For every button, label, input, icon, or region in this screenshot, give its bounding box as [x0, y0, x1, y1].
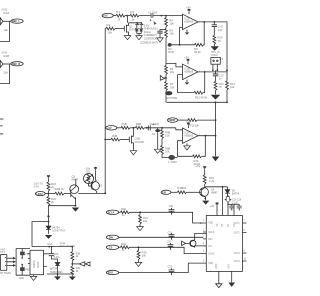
- svg-text:SCHOTTKY: SCHOTTKY: [52, 229, 66, 232]
- svg-text:ADJ: ADJ: [0, 248, 4, 251]
- svg-text:8: 8: [244, 230, 246, 232]
- svg-text:1n: 1n: [219, 77, 222, 81]
- svg-text:0.47u: 0.47u: [54, 256, 61, 259]
- svg-text:10k: 10k: [182, 186, 187, 190]
- svg-text:CONTROL: CONTROL: [144, 36, 158, 40]
- svg-text:PAD: PAD: [227, 264, 230, 269]
- svg-text:OUT3: OUT3: [234, 253, 241, 255]
- svg-text:R2B: R2B: [136, 122, 141, 126]
- svg-text:10k: 10k: [230, 85, 235, 89]
- svg-text:3: 3: [203, 236, 205, 238]
- svg-text:1k: 1k: [76, 270, 79, 273]
- svg-text:10k: 10k: [170, 70, 175, 74]
- svg-text:VB: VB: [222, 223, 224, 227]
- svg-text:C31: C31: [168, 233, 173, 235]
- svg-text:10k: 10k: [108, 31, 113, 35]
- svg-text:R40: R40: [121, 207, 126, 211]
- svg-text:(CD5952A SMT): (CD5952A SMT): [140, 42, 158, 45]
- svg-text:49.9k: 49.9k: [201, 95, 208, 99]
- svg-text:C30: C30: [169, 206, 174, 208]
- svg-text:AD8605: AD8605: [184, 21, 193, 24]
- svg-text:10k: 10k: [165, 150, 170, 154]
- svg-text:+5V: +5V: [107, 127, 112, 130]
- svg-text:OUT4: OUT4: [234, 261, 241, 263]
- svg-text:SCLK: SCLK: [208, 232, 215, 234]
- svg-text:4.7k: 4.7k: [59, 187, 65, 191]
- svg-text:SER5: SER5: [38, 261, 40, 268]
- svg-text:AD8605: AD8605: [184, 71, 193, 74]
- svg-text:1: 1: [203, 220, 205, 222]
- svg-text:2: 2: [203, 229, 205, 231]
- svg-text:10k: 10k: [195, 124, 200, 128]
- svg-text:+5V: +5V: [186, 120, 191, 124]
- svg-text:R42: R42: [121, 242, 126, 246]
- svg-text:1nF: 1nF: [218, 28, 223, 32]
- svg-text:SDO: SDO: [108, 272, 113, 275]
- svg-text:CS: CS: [208, 246, 212, 248]
- svg-text:6: 6: [180, 76, 182, 78]
- svg-text:TRIM: TRIM: [168, 51, 174, 54]
- svg-text:10k: 10k: [142, 254, 147, 258]
- svg-text:2N7002: 2N7002: [135, 140, 145, 144]
- svg-text:2k: 2k: [132, 17, 135, 21]
- svg-text:9: 9: [244, 251, 246, 253]
- svg-text:+5V: +5V: [186, 6, 191, 10]
- svg-text:FB1: FB1: [25, 254, 30, 256]
- svg-text:Q3: Q3: [99, 185, 103, 188]
- svg-text:10k: 10k: [169, 22, 174, 26]
- svg-text:VA: VA: [216, 223, 219, 226]
- svg-text:C1 10uF: C1 10uF: [148, 12, 158, 15]
- svg-text:Q4: Q4: [211, 188, 215, 192]
- svg-text:R1B: R1B: [122, 122, 127, 126]
- svg-text:DMC01: DMC01: [34, 259, 36, 268]
- svg-text:2N7002: 2N7002: [129, 28, 139, 32]
- svg-text:75: 75: [219, 85, 222, 89]
- svg-text:C33: C33: [168, 266, 173, 268]
- svg-text:REF_R: REF_R: [12, 63, 20, 66]
- svg-text:10uF: 10uF: [154, 123, 160, 126]
- svg-text:0.1uF: 0.1uF: [232, 202, 239, 204]
- svg-text:MMBT: MMBT: [211, 193, 218, 195]
- svg-text:+5V: +5V: [103, 15, 108, 18]
- svg-text:7: 7: [244, 221, 246, 223]
- svg-text:FULL-SCALE: FULL-SCALE: [60, 245, 75, 248]
- svg-text:R3B: R3B: [112, 134, 117, 138]
- svg-text:VDD: VDD: [208, 223, 213, 225]
- svg-text:L-TRIM: L-TRIM: [168, 161, 176, 164]
- svg-text:VC: VC: [228, 223, 230, 227]
- svg-text:10k: 10k: [169, 32, 174, 36]
- svg-text:GND: GND: [216, 263, 218, 268]
- svg-text:EN: EN: [162, 191, 166, 194]
- svg-text:6: 6: [203, 261, 205, 263]
- svg-text:10k: 10k: [3, 71, 8, 75]
- svg-text:MMBT: MMBT: [72, 180, 79, 182]
- svg-text:C4: C4: [152, 133, 156, 136]
- svg-text:AD8605: AD8605: [184, 135, 193, 138]
- svg-text:10k: 10k: [170, 85, 175, 89]
- svg-text:BAT54: BAT54: [50, 268, 58, 271]
- svg-text:2k: 2k: [118, 17, 121, 21]
- svg-text:49.9k: 49.9k: [194, 50, 201, 54]
- svg-text:C32: C32: [167, 242, 172, 244]
- svg-text:TEMP: TEMP: [168, 119, 175, 122]
- svg-text:SDO: SDO: [208, 263, 213, 265]
- svg-text:DIN: DIN: [208, 239, 212, 241]
- svg-text:IC4A: IC4A: [3, 11, 9, 15]
- svg-text:P1.5: P1.5: [0, 252, 5, 254]
- svg-text:TERM. RES: TERM. RES: [50, 272, 63, 274]
- svg-text:GND: GND: [19, 278, 24, 280]
- svg-text:5: 5: [203, 251, 205, 253]
- svg-text:10: 10: [244, 259, 247, 261]
- svg-text:OUT2: OUT2: [234, 233, 241, 235]
- svg-text:R21: R21: [86, 170, 91, 173]
- svg-text:FB2: FB2: [25, 270, 30, 272]
- svg-text:BT TRIAD: BT TRIAD: [0, 272, 11, 275]
- svg-text:10k: 10k: [3, 28, 8, 32]
- svg-text:R3: R3: [107, 23, 111, 27]
- svg-text:SCLK: SCLK: [108, 211, 115, 214]
- svg-text:10k: 10k: [165, 134, 170, 138]
- svg-text:1k: 1k: [76, 255, 79, 258]
- svg-text:LDAC: LDAC: [36, 193, 43, 196]
- svg-text:DIN: DIN: [109, 236, 114, 239]
- svg-text:+5V: +5V: [184, 56, 189, 60]
- svg-text:REF_L: REF_L: [12, 20, 20, 23]
- svg-text:1mA: 1mA: [47, 243, 52, 246]
- svg-text:IC4B: IC4B: [3, 54, 9, 58]
- svg-text:75: 75: [218, 39, 221, 43]
- svg-text:R2: R2: [131, 10, 135, 14]
- svg-text:+5V: +5V: [210, 206, 215, 208]
- svg-text:10k: 10k: [143, 219, 148, 223]
- svg-text:1k: 1k: [122, 215, 125, 217]
- svg-text:CS: CS: [109, 246, 113, 249]
- svg-text:C15 C16: C15 C16: [232, 200, 242, 202]
- svg-text:BAT54: BAT54: [232, 193, 240, 196]
- svg-text:R1: R1: [117, 10, 121, 14]
- svg-text:4: 4: [203, 243, 205, 245]
- svg-text:4.7k: 4.7k: [209, 179, 215, 183]
- svg-text:ADJ/TRIM: ADJ/TRIM: [166, 97, 177, 100]
- svg-text:CON2: CON2: [211, 54, 218, 57]
- svg-text:Q2: Q2: [72, 175, 76, 179]
- svg-text:VD: VD: [234, 223, 236, 227]
- svg-text:LDAC: LDAC: [208, 253, 215, 256]
- svg-text:1k: 1k: [122, 250, 125, 252]
- svg-text:+5V: +5V: [196, 164, 201, 168]
- svg-text:0.4V: 0.4V: [34, 186, 39, 189]
